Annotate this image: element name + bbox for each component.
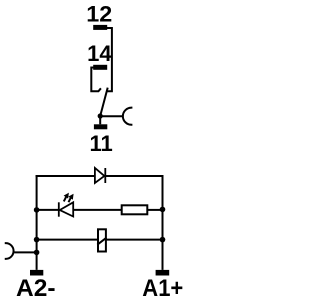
svg-text:A1+: A1+ [142,275,183,300]
switch arm 11-12 [100,88,108,116]
actuator symbol coil side [6,243,14,259]
wire junction to actuator symbol [100,115,122,117]
node right LED row [160,207,166,213]
terminal 12 [93,25,107,30]
terminal A2 [30,270,43,276]
wire box top right of diode [105,175,163,177]
node junction at 11 [98,113,103,118]
actuator symbol contact side [123,108,132,125]
wire box top left of diode [36,175,95,177]
wire LED row right [147,209,162,211]
relay coil K1 [97,229,106,251]
resistor R1 [122,205,148,214]
terminal 11 [94,124,107,129]
node left coil row [34,237,40,243]
terminal A1 [156,270,170,276]
svg-text:14: 14 [87,41,112,66]
wire coil box right side [162,175,164,270]
wire coil row right [106,239,163,241]
diode V1 [95,168,105,183]
LED arrow 1 [64,193,69,201]
wire to coil actuator symbol [14,251,36,253]
svg-text:A2-: A2- [16,275,56,300]
wire coil box left side [36,175,38,270]
node left LED row [34,207,40,213]
wire terminal 12 to NC stationary contact [106,28,112,91]
wire LED row middle [73,209,122,211]
wire junction to terminal 11 [99,116,101,124]
svg-text:11: 11 [90,131,113,156]
wire terminal 14 NO contact bracket [91,68,101,92]
svg-text:12: 12 [86,1,112,26]
wire LED row left [37,209,59,211]
LED [59,202,73,216]
terminal 14 [93,65,107,70]
LED arrow 2 [69,194,74,202]
node right coil row [160,237,166,243]
node left actuator branch [34,250,40,256]
wire coil row left [37,239,98,241]
